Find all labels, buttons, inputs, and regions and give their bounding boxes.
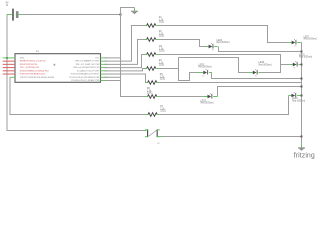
svg-text:PCLKB (LCD/OC) S1/ADC PB5: PCLKB (LCD/OC) S1/ADC PB5 (71, 79, 100, 82)
battery J1 (7, 9, 23, 21)
wire LED4 out to rail (219, 47, 302, 52)
svg-text:fritzing: fritzing (294, 153, 315, 160)
battery J1 label (6, 1, 9, 7)
wire right pin2 up to R1 (105, 26, 145, 62)
wire right pin1 (VCC) to battery vertical (105, 57, 121, 59)
wire R2 out to LED4 (158, 40, 206, 47)
LED LED2 (290, 61, 302, 66)
ground GND2 (298, 143, 305, 151)
wire left pin7 down to R7 row (10, 77, 145, 114)
R3 value label (159, 46, 165, 52)
svg-text:S1: S1 (157, 143, 159, 145)
IC1 center mark (54, 64, 56, 66)
IC IC1 (microcontroller) (15, 54, 101, 83)
svg-text:GND: GND (20, 58, 25, 60)
pushbutton S1 (145, 129, 160, 137)
R6 value label (147, 88, 153, 94)
wire R5 out to rail (159, 82, 301, 84)
svg-text:Red (633nm): Red (633nm) (217, 42, 230, 44)
svg-text:Vn: Vn (293, 67, 295, 69)
svg-text:Red (633nm): Red (633nm) (201, 103, 214, 105)
wire S1 out to rail (158, 136, 301, 138)
R5 value label (160, 74, 166, 80)
svg-text:INT0/XCK/AIN0 (OC1B/S2) PD2: INT0/XCK/AIN0 (OC1B/S2) PD2 (20, 69, 50, 72)
svg-text:Red (633nm): Red (633nm) (304, 39, 317, 41)
svg-text:PB3 en/CLKO/A PCINT10 S2: PB3 en/CLKO/A PCINT10 S2 (73, 66, 100, 69)
LED5 label (199, 64, 212, 68)
junction battery+ (120, 14, 122, 16)
R1 value label (159, 17, 165, 23)
svg-text:Vn: Vn (294, 45, 296, 47)
resistor R1 (144, 24, 158, 28)
IC1 right pin labels (69, 58, 100, 83)
wire right pin7 to battery vertical (105, 76, 121, 78)
wire battery+ to top junction (23, 14, 121, 16)
svg-text:220Ω: 220Ω (147, 93, 153, 95)
svg-text:Vn: Vn (212, 50, 214, 52)
wire LED6 feed line (179, 58, 249, 73)
svg-text:PB0 en/CH/AREF 0 PCINT: PB0 en/CH/AREF 0 PCINT (75, 60, 100, 63)
rail green tail (301, 143, 303, 147)
svg-text:RESET/PCINT14 (21.0) PC6: RESET/PCINT14 (21.0) PC6 (20, 61, 47, 63)
LED1 label (292, 98, 305, 102)
IC1 left pin labels (20, 58, 55, 79)
IC1 right pin stubs (101, 58, 108, 81)
wire R4 out jog to LED5 (158, 68, 178, 70)
wire right pin3 up to R2 (105, 40, 145, 65)
wire right pin6 down to R5 (105, 74, 146, 82)
wire battery- down to pushbutton (7, 15, 143, 131)
wire R6 out to LED3 (159, 96, 203, 98)
LED LED6 (249, 69, 262, 74)
svg-text:PCINT12/SDA (ADC4) PCINT11: PCINT12/SDA (ADC4) PCINT11 (71, 73, 101, 76)
LED LED3 (204, 93, 217, 98)
svg-text:Red (633nm): Red (633nm) (199, 67, 212, 69)
wire LED6 out up to LED2 line (261, 65, 280, 73)
R4 value label (159, 60, 165, 66)
svg-text:220Ω: 220Ω (160, 111, 166, 113)
svg-text:CIRCUIT SUBCIRCUS 88 (AC) A.SS: CIRCUIT SUBCIRCUS 88 (AC) A.SSN (20, 76, 55, 79)
resistor R4 (144, 67, 158, 71)
wire top junction to ground (121, 8, 135, 16)
ground GND1 (131, 8, 138, 15)
svg-text:PCINT19 POW BRNG (120): PCINT19 POW BRNG (120) (20, 74, 45, 76)
svg-text:220Ω: 220Ω (159, 51, 165, 53)
svg-text:220Ω: 220Ω (159, 36, 165, 38)
wire LED5 out to rail (211, 73, 302, 79)
svg-text:Vn: Vn (255, 76, 257, 78)
wire LED3 out up to rail (215, 87, 301, 97)
LED LED4 (206, 43, 218, 48)
wire LED7 cathode to rail (300, 42, 303, 44)
LED LED1 (289, 92, 301, 97)
wire right pin5 up to R4 (105, 69, 145, 71)
LED7 label (304, 36, 317, 40)
LED4 label (217, 40, 230, 44)
resistor R7 (145, 113, 159, 117)
svg-text:Vn: Vn (202, 75, 204, 77)
svg-text:SCL/ADC5 OSC2 PCINT: SCL/ADC5 OSC2 PCINT (77, 69, 100, 72)
svg-text:VCC: VCC (95, 58, 100, 60)
svg-text:220Ω: 220Ω (160, 79, 166, 81)
svg-text:PCLK/OC1A (PCINT4/MISO) PB4: PCLK/OC1A (PCINT4/MISO) PB4 (69, 76, 100, 79)
junction GND pin (6, 57, 8, 59)
resistor R3 (144, 53, 158, 57)
resistor R2 (144, 38, 158, 42)
svg-text:Red (633nm): Red (633nm) (259, 64, 272, 66)
wire right pin8 to battery vertical (105, 80, 121, 82)
svg-text:220Ω: 220Ω (159, 65, 165, 67)
rail junction dots (301, 51, 303, 138)
R7 value label (160, 106, 166, 112)
resistor R5 (145, 81, 159, 85)
IC1 left pins 2-6 red stubs (3, 61, 15, 74)
svg-text:Red (633nm): Red (633nm) (292, 100, 305, 102)
wire R3 out down to LED2 (158, 55, 289, 65)
IC1 left pin 7 wire to R7 (10, 76, 15, 78)
LED6 label (259, 62, 272, 66)
LED LED5 (198, 69, 211, 74)
wire R7 out to LED1 (160, 96, 289, 115)
LED3 label (201, 100, 214, 104)
wire right pin4 up to R3 (105, 55, 145, 68)
svg-text:TXD - (ICSP/SS) PD1: TXD - (ICSP/SS) PD1 (20, 67, 40, 69)
cathode rail (301, 43, 303, 144)
svg-text:PB1 - DC VCAP OSC PB2: PB1 - DC VCAP OSC PB2 (76, 63, 101, 66)
IC1 left pin 1 wire (to battery-) (3, 57, 15, 59)
LED2 label (299, 54, 312, 58)
wire R1 out to LED7 (158, 26, 288, 43)
svg-text:RXD/PCINT16 PD0: RXD/PCINT16 PD0 (20, 64, 38, 66)
wire battery+ down to R6 row (121, 15, 146, 97)
svg-text:220Ω: 220Ω (159, 22, 165, 24)
LED LED7 (288, 39, 300, 44)
resistor R6 (145, 95, 159, 99)
R2 value label (159, 31, 165, 37)
